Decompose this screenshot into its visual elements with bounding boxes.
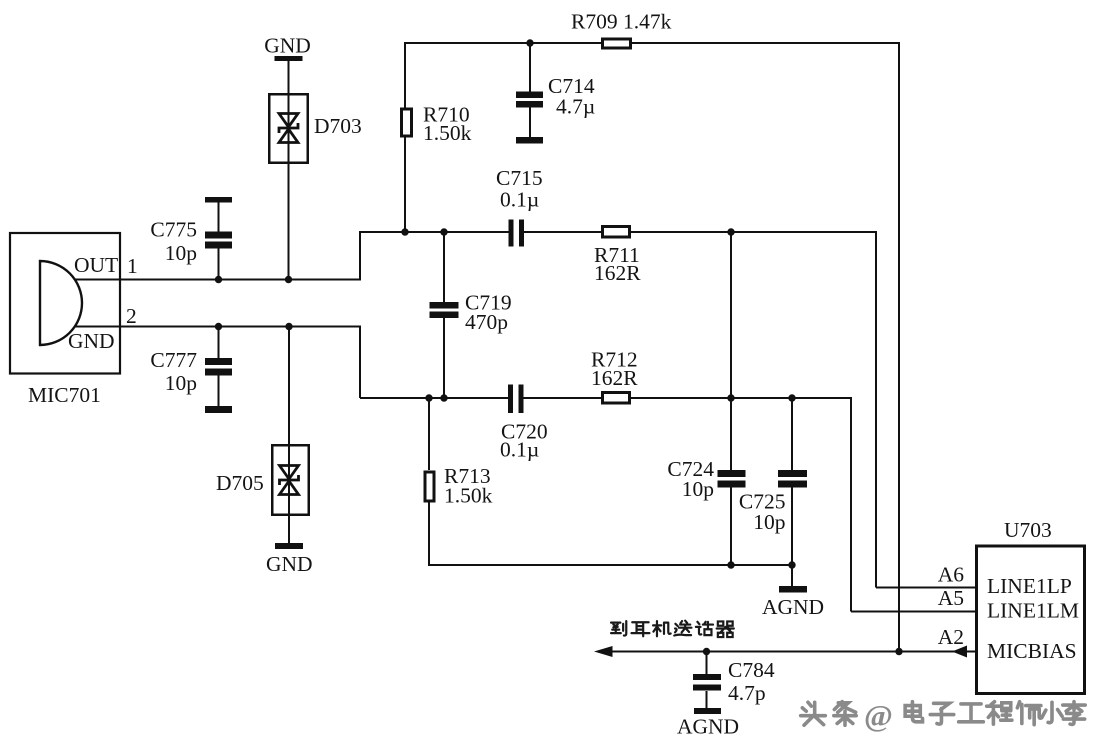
wire D703 stem (288, 58, 290, 280)
svg-text:MIC701: MIC701 (28, 383, 101, 407)
pin A6 label (938, 563, 965, 587)
wire D705 stem (288, 327, 290, 547)
svg-text:U703: U703 (1004, 518, 1052, 542)
pin 2 label (126, 304, 137, 328)
label R712 value 162R (591, 366, 638, 390)
node R710 on upper bus (401, 228, 408, 235)
wire right vertical x=899 down to MICBIAS line (898, 42, 900, 651)
wire upper bus y=232 C715 to R711 (524, 231, 603, 233)
label R711 value 162R (594, 261, 641, 285)
svg-text:10p: 10p (165, 241, 197, 265)
label R713 value 1.50k (444, 484, 493, 508)
net label: to headphone microphone (Chinese) (611, 621, 734, 637)
resistor R711 (603, 227, 630, 238)
svg-text:LINE1LM: LINE1LM (987, 599, 1079, 623)
svg-text:A5: A5 (938, 586, 964, 610)
wire upper bus y=232 left segment (360, 231, 509, 233)
wire GND pin line 2 (75, 326, 360, 399)
label C720 value 0.1u (500, 438, 539, 462)
label C784 (728, 658, 775, 682)
label AGND below C784 (677, 715, 739, 739)
ground AGND bar below C784 (694, 708, 721, 714)
svg-text:2: 2 (126, 304, 137, 328)
wire OUT pin line 1 (75, 231, 360, 281)
label LINE1LM (987, 599, 1079, 623)
label C777 value 10p (165, 371, 197, 395)
wire C724 vertical x=731 (730, 232, 732, 565)
label GND top (264, 34, 311, 58)
label C725 (739, 490, 786, 514)
watermark toutiao @dianzi gongchengshi xiaoli (801, 698, 1088, 736)
label U703 (1004, 518, 1052, 542)
svg-text:10p: 10p (753, 510, 785, 534)
svg-text:4.7µ: 4.7µ (556, 95, 595, 119)
wire vertical x=851 to LINE1LM row (851, 397, 976, 612)
wire C784 stem (706, 651, 708, 710)
node C724 on lower bus (727, 394, 734, 401)
label LINE1LP (987, 574, 1072, 598)
svg-text:AGND: AGND (762, 595, 824, 619)
capacitor C714 (516, 92, 543, 144)
wire C777 stem (218, 327, 220, 409)
wire lower bus y=398 C720 to R712 (523, 397, 603, 399)
label C714 value 4.7u (556, 95, 595, 119)
svg-text:1.50k: 1.50k (444, 484, 493, 508)
node C724 bottom on y=565 line (727, 561, 734, 568)
ground GND bar above D703 (275, 56, 303, 61)
label C715 value 0.1u (500, 188, 539, 212)
pin A5 label (938, 586, 964, 610)
label R712 (591, 348, 638, 372)
svg-text:C775: C775 (150, 218, 197, 242)
node C724 branch on upper bus (727, 228, 734, 235)
label C775 value 10p (165, 241, 197, 265)
resistor R709 (603, 39, 631, 48)
label C784 value 4.7p (728, 681, 766, 705)
capacitor C719 (430, 302, 459, 318)
svg-text:0.1µ: 0.1µ (500, 188, 539, 212)
svg-text:C715: C715 (496, 166, 543, 190)
label C724 (667, 457, 714, 481)
label GND bottom (266, 552, 313, 576)
svg-text:A2: A2 (938, 625, 964, 649)
wire C725 vertical x=792 (791, 398, 793, 589)
chip U703 box (977, 546, 1085, 694)
svg-text:C784: C784 (728, 658, 775, 682)
capacitor C777 (205, 358, 232, 413)
node C719 bottom on lower bus (440, 394, 447, 401)
svg-text:GND: GND (68, 329, 115, 353)
label D703 (314, 114, 362, 138)
label R709 1.47k (571, 10, 672, 34)
svg-text:MICBIAS: MICBIAS (987, 639, 1077, 663)
capacitor C724 (718, 470, 746, 488)
ground AGND bar below C725 (779, 586, 807, 593)
resistor R712 (603, 393, 630, 404)
node C777 on line 2 (215, 323, 222, 330)
capacitor C725 (778, 470, 807, 488)
svg-text:1.50k: 1.50k (423, 121, 472, 145)
node R713 top on lower bus (425, 394, 432, 401)
svg-text:D703: D703 (314, 114, 362, 138)
capacitor C775 (205, 197, 232, 249)
label AGND below C725 (762, 595, 824, 619)
label C719 value 470p (465, 310, 508, 334)
wire lower bus y=398 R712 to corner x=851 (630, 397, 851, 399)
label D705 (216, 471, 264, 495)
arrow left to headphone mic (594, 646, 613, 657)
svg-text:162R: 162R (591, 366, 638, 390)
svg-text:4.7p: 4.7p (728, 681, 766, 705)
svg-text:10p: 10p (682, 477, 714, 501)
node x=899 on MICBIAS line (895, 648, 902, 655)
svg-text:0.1µ: 0.1µ (500, 438, 539, 462)
svg-text:162R: 162R (594, 261, 641, 285)
svg-text:OUT: OUT (74, 253, 118, 277)
microphone MIC701 box (10, 233, 120, 374)
label C719 (465, 291, 512, 315)
label C715 (496, 166, 543, 190)
node C719 top on upper bus (440, 228, 447, 235)
label C725 value 10p (753, 510, 785, 534)
svg-text:1: 1 (127, 254, 138, 278)
pin A2 label (938, 625, 964, 649)
svg-text:AGND: AGND (677, 715, 739, 739)
svg-text:R709 1.47k: R709 1.47k (571, 10, 672, 34)
label R711 (594, 243, 640, 267)
capacitor C715 (509, 220, 525, 247)
wire C719 stem (443, 232, 445, 398)
node C725 on lower bus (788, 394, 795, 401)
svg-text:10p: 10p (165, 371, 197, 395)
node C725 bottom AGND junction (788, 561, 795, 568)
ground GND bar below D705 (275, 543, 303, 549)
label R713 (444, 464, 491, 488)
label C720 (501, 420, 548, 444)
label C775 (150, 218, 197, 242)
resistor R713 (425, 472, 434, 501)
svg-text:GND: GND (266, 552, 313, 576)
label MICBIAS (987, 639, 1077, 663)
wire lower bus y=398 left segment (360, 397, 509, 399)
svg-text:A6: A6 (938, 563, 965, 587)
label R710 value 1.50k (423, 121, 472, 145)
label C714 (548, 74, 595, 98)
node D703 on line 1 (285, 276, 292, 283)
svg-text:LINE1LP: LINE1LP (987, 574, 1072, 598)
svg-text:D705: D705 (216, 471, 264, 495)
svg-text:C777: C777 (150, 348, 197, 372)
node C784 on MICBIAS line (703, 648, 710, 655)
wire R713 branch and bottom line y=565 (428, 398, 792, 565)
label C724 value 10p (682, 477, 714, 501)
capacitor C784 (693, 674, 721, 691)
diode D705 TVS (272, 445, 309, 515)
wire C714 stem (529, 43, 531, 138)
label MIC701 (28, 383, 101, 407)
wire top rail from R709 to right corner (631, 42, 899, 44)
label R710 (423, 103, 470, 127)
label GND inside mic (68, 329, 115, 353)
label OUT (74, 253, 118, 277)
capacitor C720 (508, 385, 524, 414)
node D705 on line 2 (285, 323, 292, 330)
arrow at MICBIAS pin (952, 646, 967, 658)
wire vertical x=876 to LINE1LP row (876, 231, 976, 588)
diode D703 TVS (269, 94, 308, 163)
node C714 top junction (526, 39, 533, 46)
pin 1 label (127, 254, 138, 278)
node C775 on line 1 (215, 276, 222, 283)
label C777 (150, 348, 197, 372)
svg-text:@: @ (864, 698, 893, 733)
wire C775 stem (218, 202, 220, 280)
wire upper bus y=232 R711 to corner x=876 (630, 231, 876, 233)
wire top rail from R710 to R709 (404, 42, 602, 44)
svg-text:GND: GND (264, 34, 311, 58)
svg-text:470p: 470p (465, 310, 508, 334)
resistor R710 (402, 109, 412, 136)
wire MICBIAS line y=651 (606, 651, 976, 653)
wire R710 branch vertical (404, 42, 406, 232)
